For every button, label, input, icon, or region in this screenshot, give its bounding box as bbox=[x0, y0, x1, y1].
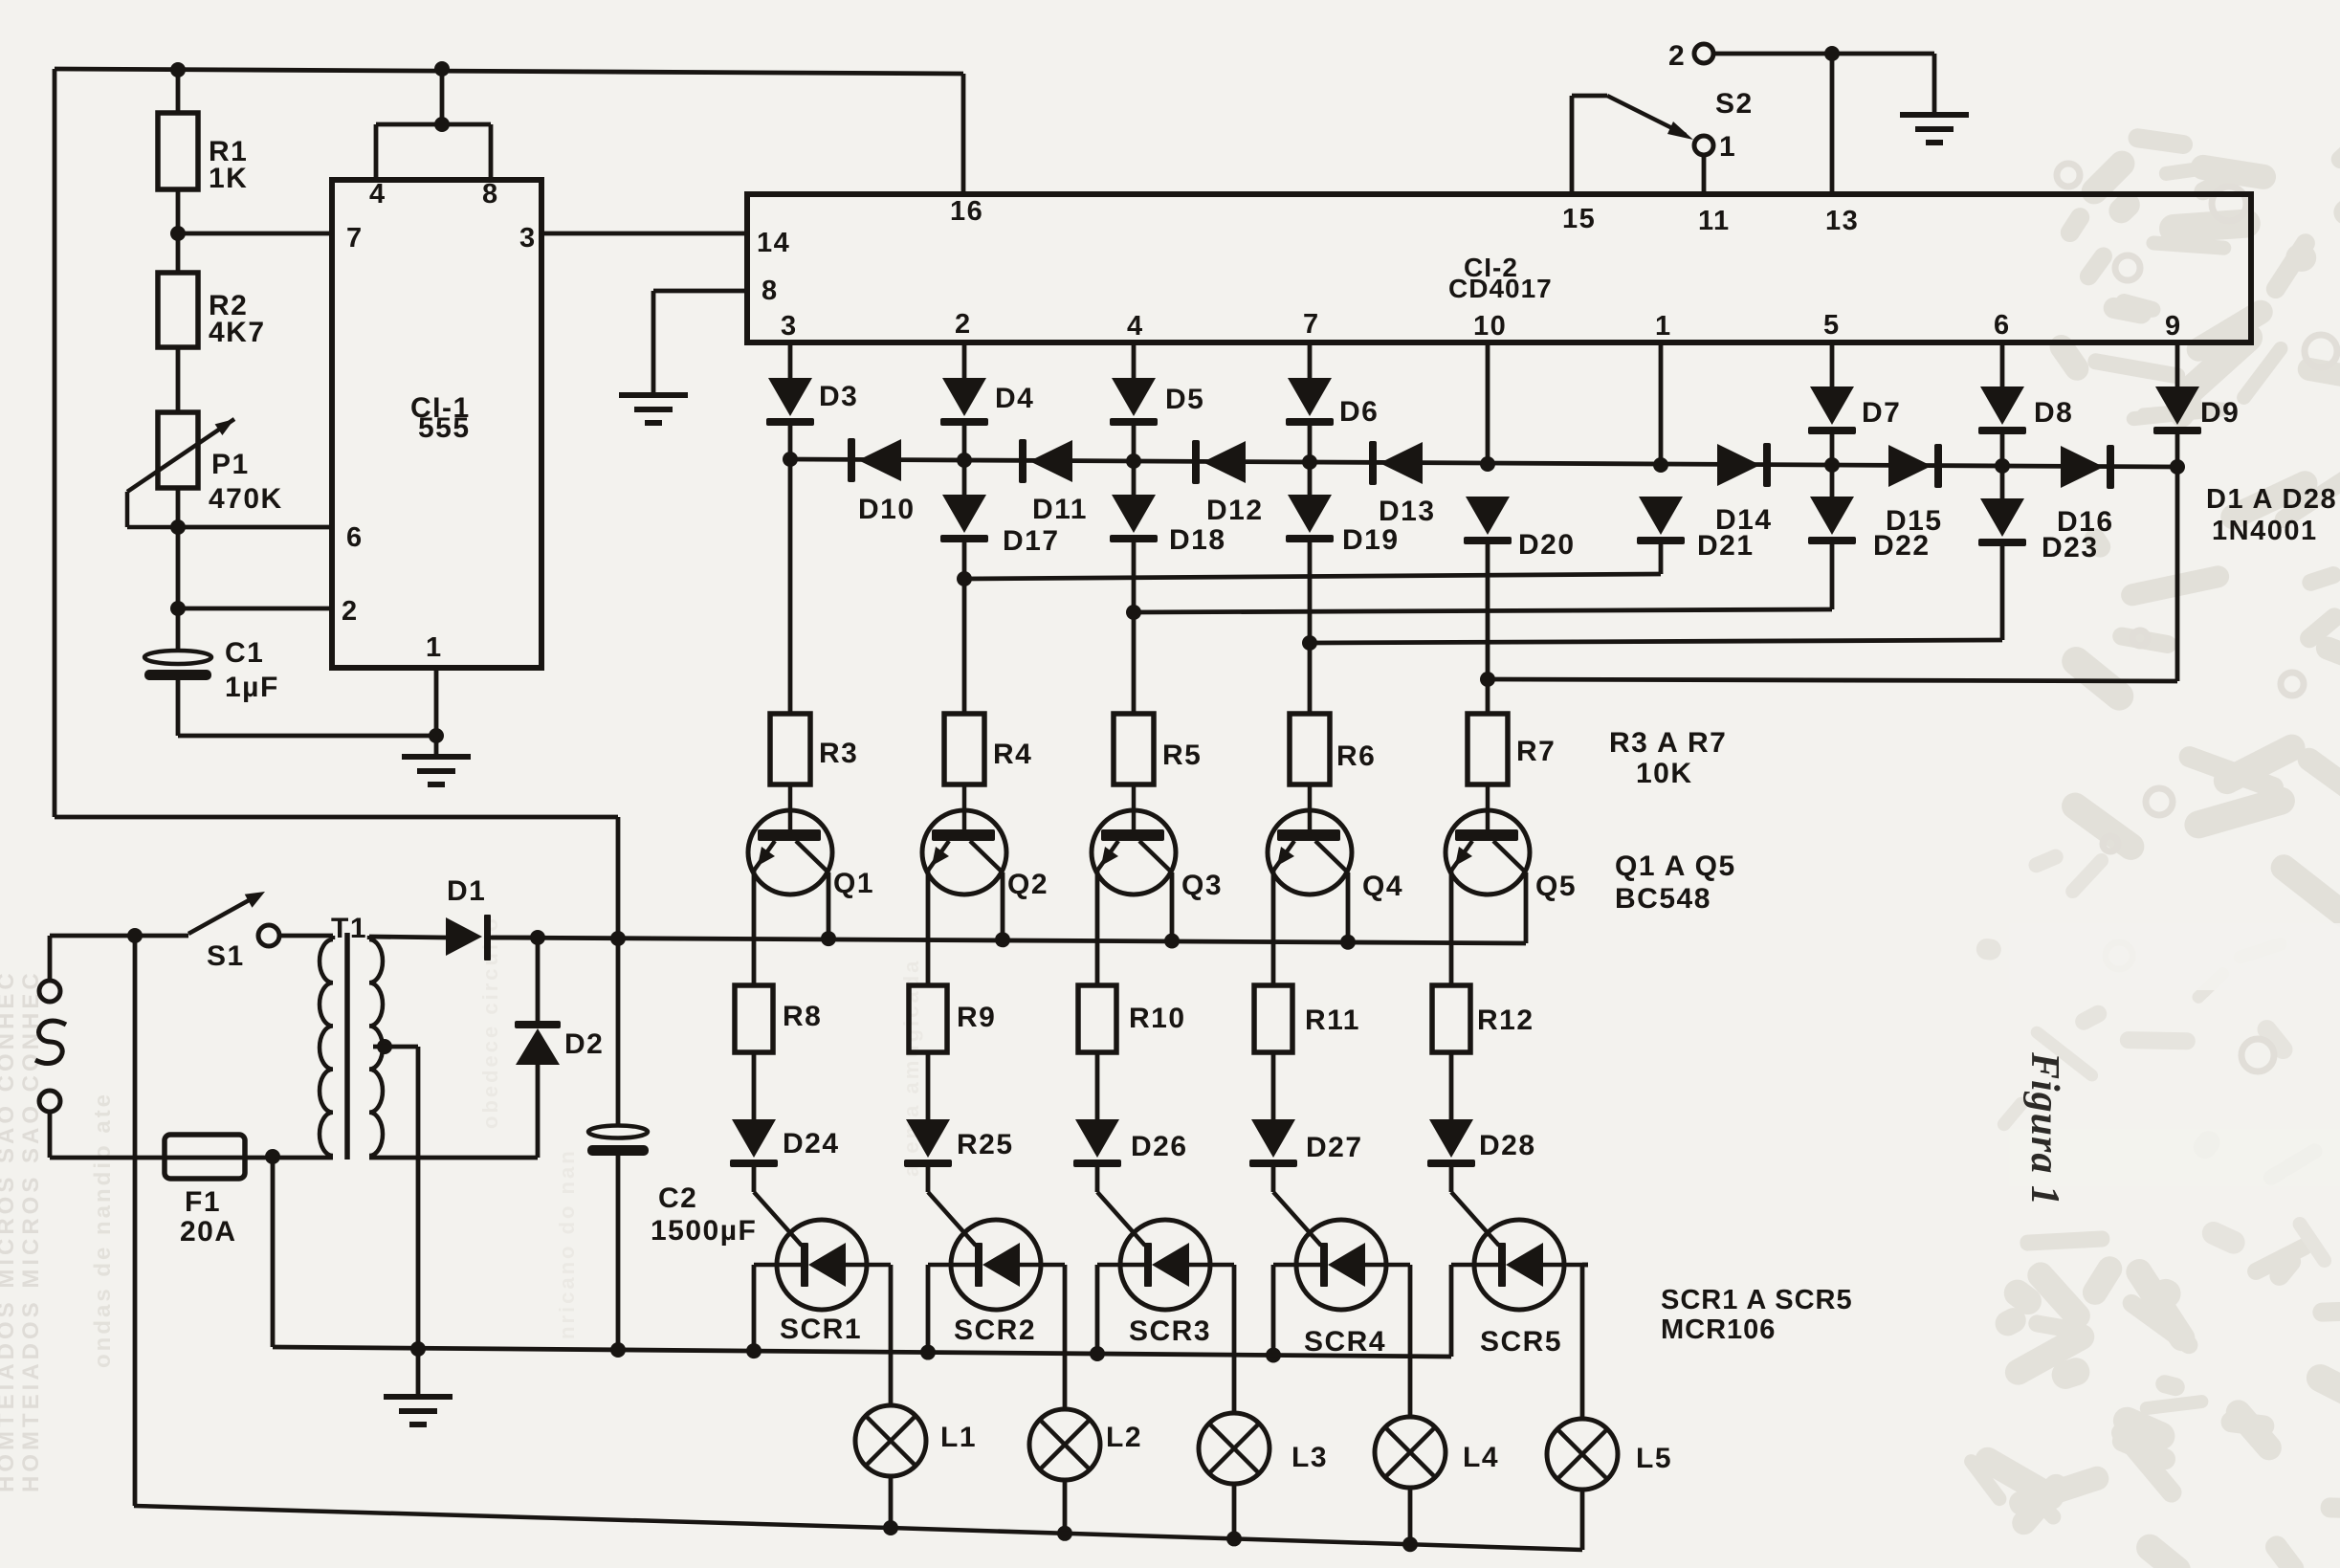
wire: junction to 555 pin 2 bbox=[178, 607, 332, 611]
svg-text:L5: L5 bbox=[1636, 1443, 1672, 1474]
svg-text:D18: D18 bbox=[1169, 524, 1226, 556]
diode D17 bbox=[940, 495, 1060, 557]
node: cathode rail junction center tap bbox=[410, 1341, 426, 1357]
node: D2 junction bbox=[530, 930, 545, 945]
ground: 555 pin 1 bbox=[402, 736, 471, 784]
svg-text:3: 3 bbox=[519, 223, 537, 254]
op-amp U1: timer CI-1 555 box bbox=[332, 179, 541, 668]
wire: D4 to bus bbox=[962, 426, 967, 460]
svg-text:11: 11 bbox=[1698, 206, 1731, 236]
svg-text:10K: 10K bbox=[1636, 758, 1693, 789]
wire: SCR1 anode to L1 bbox=[889, 1265, 894, 1405]
diode D3 bbox=[766, 378, 858, 426]
wire: pin 1 stub bbox=[1659, 342, 1664, 465]
wire: gate lead SCR2 bbox=[928, 1167, 976, 1246]
wire: D20 to return node bbox=[1486, 544, 1490, 679]
wire: CI-2 pin 8 stub bbox=[653, 289, 747, 294]
svg-text:555: 555 bbox=[418, 412, 471, 444]
diode D13 bbox=[1369, 441, 1436, 527]
wire: return to R5 bbox=[1132, 612, 1137, 714]
wire: 555 pin 8 riser bbox=[489, 124, 494, 180]
svg-text:MCR106: MCR106 bbox=[1661, 1314, 1776, 1345]
svg-text:1500µF: 1500µF bbox=[651, 1215, 757, 1247]
wire: gate lead SCR5 bbox=[1451, 1167, 1499, 1246]
wire: D6 to bus bbox=[1308, 426, 1313, 462]
wire: R10 to D26 bbox=[1095, 1052, 1100, 1119]
wire: fuse junction to cathode rail bbox=[271, 1157, 276, 1347]
svg-text:P1: P1 bbox=[211, 449, 250, 480]
svg-text:1: 1 bbox=[1719, 131, 1736, 163]
svg-text:L4: L4 bbox=[1463, 1442, 1499, 1473]
wire: bus to D18 bbox=[1132, 461, 1137, 495]
lamp L4 bbox=[1375, 1417, 1499, 1488]
ground: CI-2 pin 8 bbox=[619, 291, 688, 423]
svg-text:S1: S1 bbox=[207, 940, 245, 972]
svg-text:16: 16 bbox=[950, 196, 983, 227]
node: collector rail junction Q2 bbox=[995, 932, 1010, 947]
wire: R12 to D28 bbox=[1449, 1052, 1454, 1119]
wire: 555 pin3 to CI-2 pin14 bbox=[541, 232, 747, 236]
node: bridge junction bbox=[434, 117, 450, 132]
node: bus junction col10 bbox=[1480, 456, 1495, 472]
wire: L5 to bottom rail bbox=[1580, 1490, 1585, 1550]
svg-text:ondas de nandio ate: ondas de nandio ate bbox=[90, 1092, 116, 1368]
node: bus junction col3 bbox=[783, 452, 798, 467]
wire: L3 to bottom rail bbox=[1232, 1484, 1237, 1538]
svg-text:SCR4: SCR4 bbox=[1304, 1326, 1386, 1358]
node: cathode rail junction SCR1 bbox=[746, 1343, 762, 1358]
diode D24 bbox=[730, 1119, 840, 1167]
svg-text:T1: T1 bbox=[331, 913, 367, 944]
wire: upper terminal to S1 bbox=[50, 936, 188, 981]
svg-text:1: 1 bbox=[1655, 311, 1672, 342]
wire: Q5 emitter drop bbox=[1449, 871, 1454, 985]
svg-text:D7: D7 bbox=[1862, 397, 1901, 429]
wire: L1 to bottom rail bbox=[889, 1476, 894, 1528]
thyristor SCR3 bbox=[1097, 1220, 1234, 1347]
svg-text:R7: R7 bbox=[1516, 736, 1556, 767]
wire: D5 to bus bbox=[1132, 426, 1137, 461]
diode D6 bbox=[1286, 378, 1379, 428]
svg-text:8: 8 bbox=[482, 179, 499, 210]
svg-text:D15: D15 bbox=[1886, 505, 1943, 537]
node: lamp return junction bbox=[127, 928, 143, 943]
svg-text:D27: D27 bbox=[1306, 1132, 1363, 1163]
transformer T1 bbox=[320, 913, 383, 1159]
wire: pin 5 stub bbox=[1830, 342, 1835, 386]
wire: D2 to secondary bottom bbox=[369, 1065, 538, 1158]
wire: return to R6 bbox=[1308, 643, 1313, 714]
wire: 555 pin 4 riser bbox=[374, 124, 379, 180]
svg-text:10: 10 bbox=[1473, 311, 1507, 342]
svg-text:D3: D3 bbox=[819, 381, 858, 412]
resistor R7 bbox=[1468, 714, 1556, 784]
wire: CI-2 pin 15 riser bbox=[1570, 96, 1575, 194]
wire: D9 to bus bbox=[2175, 434, 2180, 467]
wire: Q2 emitter drop bbox=[926, 871, 931, 985]
node: collector rail junction Q4 bbox=[1340, 935, 1356, 950]
wire: R2 to P1 bbox=[176, 347, 181, 412]
wire: pin 7 stub bbox=[1308, 342, 1313, 378]
wire: bus to D22 bbox=[1830, 465, 1835, 497]
node: pin6 junction bbox=[170, 519, 186, 535]
node: bus junction col6 bbox=[1995, 458, 2010, 474]
wire: SCR2 anode to L2 bbox=[1063, 1265, 1068, 1409]
svg-text:20A: 20A bbox=[180, 1216, 237, 1248]
node: bus junction col1 bbox=[1653, 457, 1668, 473]
svg-text:L1: L1 bbox=[940, 1422, 977, 1453]
svg-text:SCR2: SCR2 bbox=[954, 1314, 1036, 1346]
diode D23 bbox=[1978, 498, 2099, 563]
wire: D8 to bus bbox=[2000, 434, 2005, 466]
wire: L4 to bottom rail bbox=[1408, 1488, 1413, 1544]
wire: bus to D17 bbox=[962, 460, 967, 495]
svg-text:D1: D1 bbox=[447, 875, 486, 907]
node: cathode rail junction SCR4 bbox=[1266, 1347, 1281, 1362]
node: bus junction col2 bbox=[957, 453, 972, 468]
wire: D1 to rail bbox=[492, 936, 538, 940]
diode D16 bbox=[2057, 445, 2114, 538]
wire: pin 6 stub bbox=[2000, 342, 2005, 386]
svg-text:R8: R8 bbox=[783, 1001, 822, 1032]
wire: collector supply rail bbox=[491, 938, 1526, 943]
potentiometer P1 bbox=[127, 412, 283, 527]
svg-text:D17: D17 bbox=[1003, 525, 1060, 557]
node: bottom rail junction L3 bbox=[1226, 1531, 1242, 1546]
svg-text:6: 6 bbox=[1994, 310, 2011, 341]
svg-text:R11: R11 bbox=[1305, 1005, 1360, 1036]
wire: return line from D21 bbox=[964, 574, 1661, 579]
wire: D17 to return node bbox=[962, 542, 967, 579]
svg-text:13: 13 bbox=[1825, 206, 1859, 236]
svg-text:Q1: Q1 bbox=[833, 868, 874, 899]
wire: SCR3 anode to L3 bbox=[1232, 1265, 1237, 1413]
wire: R1 to R2 bbox=[176, 189, 181, 273]
resistor R8 bbox=[735, 985, 822, 1052]
thyristor SCR1 bbox=[754, 1220, 891, 1345]
wire: return to R4 bbox=[962, 579, 967, 714]
wire: C2 branch bbox=[616, 939, 621, 1125]
wire: Q2 collector drop bbox=[1001, 872, 1005, 939]
wire: SCR5 cathode drop bbox=[1449, 1265, 1454, 1357]
wire: supply lower horizontal to C2 column bbox=[55, 815, 618, 820]
svg-text:9: 9 bbox=[2165, 311, 2182, 342]
wire: SCR4 anode to L4 bbox=[1408, 1265, 1413, 1417]
wire: L2 to bottom rail bbox=[1063, 1480, 1068, 1534]
wire: supply drop to rectifier rail bbox=[616, 817, 621, 939]
wire: return line from D23 bbox=[1310, 640, 2002, 643]
wire: D22 elbow to return line bbox=[1830, 544, 1835, 609]
wire: pin4-pin8 bridge bbox=[376, 122, 491, 127]
wire: D2 branch upper bbox=[536, 938, 541, 1022]
resistor R12 bbox=[1432, 985, 1534, 1052]
diode D21 bbox=[1637, 497, 1755, 562]
wire: lamp return left riser bbox=[133, 936, 138, 1506]
wire: S2 pole to CI-2 pin 11 bbox=[1702, 155, 1707, 194]
plug: AC terminal lower bbox=[39, 1091, 60, 1112]
plug: AC terminal upper bbox=[39, 981, 60, 1002]
svg-text:D11: D11 bbox=[1032, 494, 1088, 525]
wire: junction to C1 bbox=[176, 608, 181, 651]
svg-text:R3 A R7: R3 A R7 bbox=[1609, 727, 1727, 759]
resistor R11 bbox=[1254, 985, 1360, 1052]
wire: return line from bus end bbox=[1488, 679, 2177, 681]
wire: D23 elbow to return line bbox=[2000, 546, 2005, 640]
svg-text:L2: L2 bbox=[1106, 1422, 1142, 1453]
diode D15 bbox=[1886, 444, 1943, 537]
thyristor SCR5 bbox=[1451, 1220, 1588, 1358]
wire: P1 to C1 column bbox=[176, 488, 181, 608]
label: AC symbol bbox=[35, 1021, 66, 1064]
wire: SCR4 cathode drop bbox=[1271, 1265, 1276, 1355]
wire: Q1 emitter drop bbox=[752, 871, 757, 985]
wire: SCR3 cathode drop bbox=[1095, 1265, 1100, 1354]
node: pin7 junction bbox=[170, 226, 186, 241]
node: pin13 junction bbox=[1824, 46, 1840, 61]
node: bottom rail junction L1 bbox=[883, 1520, 898, 1535]
diode D4 bbox=[940, 378, 1034, 426]
diode D2 bbox=[515, 1021, 604, 1065]
svg-text:Q2: Q2 bbox=[1007, 869, 1049, 900]
wire: lower terminal to fuse bbox=[50, 1112, 333, 1158]
node: return junction col2 bbox=[957, 571, 972, 586]
svg-text:D14: D14 bbox=[1715, 504, 1773, 536]
svg-text:1N4001: 1N4001 bbox=[2212, 516, 2318, 546]
diode D5 bbox=[1110, 378, 1204, 426]
wire: Q4 collector drop bbox=[1346, 872, 1351, 942]
svg-text:14: 14 bbox=[757, 228, 790, 258]
wire: SCR cathode rail bbox=[273, 1347, 1451, 1357]
diode D11 bbox=[1019, 439, 1088, 525]
lamp L3 bbox=[1199, 1413, 1328, 1484]
svg-text:2: 2 bbox=[342, 596, 359, 627]
wire: pin 4 stub bbox=[1132, 342, 1137, 378]
wire: junction to CI-2 pin 13 bbox=[1830, 54, 1835, 194]
svg-text:6: 6 bbox=[346, 522, 364, 553]
svg-text:D24: D24 bbox=[783, 1128, 840, 1159]
diode D7 bbox=[1808, 386, 1901, 434]
diode D10 bbox=[848, 438, 916, 525]
svg-text:SCR1 A SCR5: SCR1 A SCR5 bbox=[1661, 1285, 1853, 1315]
svg-text:R12: R12 bbox=[1477, 1005, 1534, 1036]
resistor R4 bbox=[944, 714, 1032, 784]
svg-text:R9: R9 bbox=[957, 1002, 996, 1033]
svg-text:D26: D26 bbox=[1131, 1131, 1188, 1162]
diode D22 bbox=[1808, 497, 1931, 562]
svg-text:D16: D16 bbox=[2057, 506, 2114, 538]
diode D28 bbox=[1427, 1119, 1536, 1167]
lamp L2 bbox=[1029, 1409, 1142, 1480]
svg-text:470K: 470K bbox=[209, 483, 283, 515]
wire: SCR5 anode to L5 bbox=[1582, 1265, 1588, 1419]
svg-text:3: 3 bbox=[781, 311, 798, 342]
switch S1 bbox=[188, 892, 279, 972]
wire: R11 to D27 bbox=[1271, 1052, 1276, 1119]
svg-text:4: 4 bbox=[1127, 311, 1144, 342]
capacitor C2 bbox=[587, 1126, 757, 1248]
svg-text:D2: D2 bbox=[564, 1028, 604, 1060]
diode D12 bbox=[1192, 440, 1264, 526]
svg-text:D6: D6 bbox=[1339, 396, 1379, 428]
fuse F1 bbox=[165, 1135, 245, 1248]
wire: pin 10 stub bbox=[1486, 342, 1490, 464]
svg-text:D4: D4 bbox=[995, 383, 1034, 414]
diode D19 bbox=[1286, 495, 1400, 556]
svg-text:D10: D10 bbox=[858, 494, 916, 525]
wire: SCR2 cathode drop bbox=[926, 1265, 931, 1353]
svg-text:D12: D12 bbox=[1206, 495, 1264, 526]
op-amp U2: counter CI-2 CD4017 box bbox=[747, 194, 2251, 342]
transistor Q5 bbox=[1446, 784, 1577, 902]
ground: S2 bbox=[1900, 115, 1969, 143]
svg-text:D19: D19 bbox=[1342, 524, 1400, 556]
svg-text:4K7: 4K7 bbox=[209, 317, 266, 348]
svg-text:8: 8 bbox=[762, 276, 779, 306]
node: bottom rail junction L4 bbox=[1402, 1536, 1418, 1552]
wire: pin 2 stub bbox=[962, 342, 967, 378]
wire: bus to D23 bbox=[2000, 466, 2005, 498]
svg-text:L3: L3 bbox=[1291, 1442, 1328, 1473]
lamp L1 bbox=[855, 1405, 977, 1476]
node: cathode rail junction SCR3 bbox=[1090, 1346, 1105, 1361]
svg-text:D28: D28 bbox=[1479, 1130, 1536, 1161]
resistor R10 bbox=[1078, 985, 1186, 1052]
decorative: pcb bleed-through texture bbox=[1961, 89, 2340, 1568]
svg-text:4: 4 bbox=[369, 179, 386, 210]
label: Q1 A Q5 BC548 bbox=[1615, 850, 1736, 915]
thyristor SCR2 bbox=[928, 1220, 1065, 1346]
svg-text:2: 2 bbox=[1668, 40, 1686, 72]
diode D14 bbox=[1715, 443, 1773, 536]
resistor R9 bbox=[909, 985, 996, 1052]
resistor R6 bbox=[1290, 714, 1376, 784]
wire: lamp return rail bbox=[134, 1506, 1582, 1550]
ground: center tap bbox=[384, 1349, 453, 1424]
wire: Q4 emitter drop bbox=[1271, 871, 1276, 985]
node: collector rail junction Q3 bbox=[1164, 934, 1180, 949]
wire: return to R7 bbox=[1486, 679, 1490, 714]
label: SCR1 A SCR5 MCR106 bbox=[1661, 1285, 1853, 1345]
svg-text:Q4: Q4 bbox=[1362, 871, 1403, 902]
node: return junction col10 bbox=[1480, 672, 1495, 687]
wire: Q3 collector drop bbox=[1170, 872, 1175, 941]
svg-text:R3: R3 bbox=[819, 738, 858, 769]
wire: C2 to cathode rail bbox=[616, 1152, 621, 1350]
svg-text:7: 7 bbox=[1303, 309, 1320, 340]
wire: R8 to D24 bbox=[752, 1052, 757, 1119]
wire: supply to CI-2 pin 16 bbox=[961, 74, 966, 194]
wire: bus to D20 bbox=[0, 0, 1, 1]
svg-text:R25: R25 bbox=[957, 1129, 1014, 1160]
wire: bus to R3 bbox=[788, 459, 793, 714]
diode R25 bbox=[904, 1119, 1014, 1167]
wire: R9 to D25 bbox=[926, 1052, 931, 1119]
wire: Q1 collector drop bbox=[827, 872, 831, 939]
svg-text:1µF: 1µF bbox=[225, 672, 279, 703]
node: return junction col7 bbox=[1302, 635, 1317, 651]
node: rectifier rail junction bbox=[610, 931, 626, 946]
wire: SCR1 cathode drop bbox=[752, 1265, 757, 1351]
svg-text:SCR1: SCR1 bbox=[780, 1314, 862, 1345]
node: return junction col4 bbox=[1126, 605, 1141, 620]
wire: diode bus bbox=[790, 459, 2177, 467]
svg-text:2: 2 bbox=[955, 309, 972, 340]
transistor Q1 bbox=[748, 784, 874, 899]
node: bottom rail junction L2 bbox=[1057, 1526, 1072, 1541]
wire: pin 3 stub bbox=[788, 342, 793, 378]
node: R1 top junction bbox=[170, 62, 186, 77]
label: D1 A D28 1N4001 bbox=[2206, 484, 2337, 546]
wire: top supply rail bbox=[55, 69, 963, 74]
transistor Q4 bbox=[1268, 784, 1403, 902]
resistor R2 bbox=[158, 273, 266, 348]
node: cathode rail junction SCR2 bbox=[920, 1345, 936, 1360]
wire: return line from D22 bbox=[1134, 609, 1832, 612]
svg-text:D8: D8 bbox=[2034, 397, 2073, 429]
svg-text:Q1 A Q5: Q1 A Q5 bbox=[1615, 850, 1736, 882]
wire: gate lead SCR3 bbox=[1097, 1167, 1145, 1246]
wire: gate lead SCR4 bbox=[1273, 1167, 1321, 1246]
resistor R5 bbox=[1114, 714, 1202, 784]
svg-text:15: 15 bbox=[1562, 204, 1596, 234]
lamp L5 bbox=[1547, 1419, 1672, 1490]
node: cathode rail junction C2 bbox=[610, 1342, 626, 1358]
svg-text:F1: F1 bbox=[185, 1186, 221, 1218]
diode D27 bbox=[1249, 1119, 1363, 1167]
wire: bus end drop to return line bbox=[2175, 467, 2180, 681]
wire: secondary top to D1 bbox=[369, 937, 446, 938]
node: bus junction col9 bbox=[2170, 459, 2185, 475]
wire: Q3 emitter drop bbox=[1095, 871, 1100, 985]
svg-text:R6: R6 bbox=[1336, 740, 1376, 772]
node: pin1 ground junction bbox=[429, 728, 444, 743]
node: bus junction col5 bbox=[1824, 457, 1840, 473]
svg-text:HOMTEIADOS MICROS SAO CONHEC: HOMTEIADOS MICROS SAO CONHEC bbox=[18, 969, 44, 1492]
wire: T1 center tap bbox=[373, 1039, 418, 1349]
wire: D19 to return node bbox=[1308, 542, 1313, 643]
label: R3 A R7 10K bbox=[1609, 727, 1727, 789]
diode D8 bbox=[1978, 386, 2073, 434]
diode D18 bbox=[1110, 495, 1226, 556]
wire: Q5 collector drop bbox=[1524, 872, 1529, 943]
wire: bus to D19 bbox=[1308, 462, 1313, 495]
svg-text:SCR3: SCR3 bbox=[1129, 1315, 1211, 1347]
wire: S1 to T1 primary bbox=[279, 934, 333, 939]
node: bus junction col4 bbox=[1126, 453, 1141, 469]
transistor Q3 bbox=[1092, 784, 1223, 901]
svg-text:BC548: BC548 bbox=[1615, 883, 1711, 915]
svg-text:C1: C1 bbox=[225, 637, 264, 669]
wire: 555 pin 1 stub bbox=[434, 668, 439, 736]
node: collector rail junction Q1 bbox=[821, 931, 836, 946]
svg-text:R5: R5 bbox=[1162, 740, 1202, 771]
svg-text:1: 1 bbox=[426, 632, 443, 663]
svg-text:HOMTEIADOS MICROS SAO CONHEC: HOMTEIADOS MICROS SAO CONHEC bbox=[0, 969, 19, 1492]
wire: junction to 555 pin 6 bbox=[178, 525, 332, 530]
svg-text:Figura 1: Figura 1 bbox=[2022, 1051, 2066, 1206]
svg-text:D1 A D28: D1 A D28 bbox=[2206, 484, 2337, 515]
svg-text:D5: D5 bbox=[1165, 384, 1204, 415]
node: bus junction col7 bbox=[1302, 454, 1317, 470]
wire: junction to 555 pin 7 bbox=[178, 232, 332, 236]
svg-text:7: 7 bbox=[346, 223, 364, 254]
wire: S2 terminal 2 to ground bbox=[1713, 54, 1934, 115]
diode D20 bbox=[1464, 497, 1576, 561]
svg-text:1K: 1K bbox=[209, 163, 248, 194]
svg-text:Q3: Q3 bbox=[1181, 870, 1223, 901]
svg-text:5: 5 bbox=[1823, 310, 1841, 341]
svg-text:D9: D9 bbox=[2200, 397, 2240, 429]
